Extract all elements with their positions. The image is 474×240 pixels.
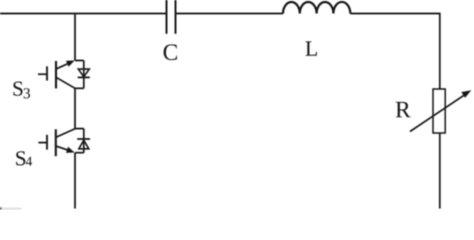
artifact: dark mark bottom-left corner: [0, 207, 2, 209]
wire: left branch bottom stub: [74, 153, 76, 209]
transistor S3 gate bar: [46, 66, 48, 80]
wire: between S3 and S4: [74, 88, 76, 128]
arrowhead: S4 emitter arrow: [66, 147, 75, 153]
wire: left branch from top bus junction down to S3: [74, 14, 76, 61]
diode D3 triangle (pointing down): [78, 69, 89, 77]
label C: [164, 44, 177, 60]
wire: right branch below resistor: [439, 133, 441, 209]
diode D4 cathode bar: [77, 138, 90, 140]
arrowhead: R variable arrow: [461, 90, 471, 97]
node: S3 top horizontal: [75, 60, 84, 62]
transistor S4 gate bar: [46, 135, 48, 150]
transistor S3 body bar: [55, 61, 57, 88]
node: S3 bottom horizontal: [75, 87, 84, 89]
label R: [396, 102, 411, 117]
wire: top bus right segment and right corner down to resistor: [350, 14, 440, 90]
arrowhead: S3 collector arrow: [66, 60, 75, 66]
transistor S4 emitter line with arrow: [56, 146, 67, 150]
label S4 subscript 4: [26, 157, 32, 166]
transistor S4 collector line: [57, 129, 76, 137]
node: S4 top horizontal: [75, 128, 84, 130]
resistor R variable arrow line: [410, 94, 466, 132]
label S4 letter S: [16, 151, 25, 165]
label S3 letter S: [13, 82, 22, 96]
resistor R body: [433, 89, 445, 133]
diode D3 cathode bar: [78, 76, 90, 78]
artifact: light grey smudge bottom-left: [2, 208, 22, 210]
node: S4 bottom horizontal: [75, 152, 84, 154]
label L: [306, 41, 317, 55]
transistor S3 gate lead: [38, 73, 47, 75]
diode D4 triangle (pointing up): [79, 140, 89, 149]
transistor S4 body bar: [55, 129, 57, 156]
diode D3 vertical lead: [83, 61, 85, 89]
inductor L humps: [283, 2, 350, 14]
transistor S3 emitter line: [57, 78, 75, 89]
transistor S4 gate lead: [38, 142, 47, 144]
transistor S3 collector line with arrow: [57, 63, 69, 68]
diode D4 vertical lead: [83, 129, 85, 153]
wire: top bus left segment: [0, 13, 167, 15]
wire: top bus between C and L: [176, 13, 284, 15]
label S3 subscript 3: [24, 88, 30, 98]
capacitor C plates: [167, 0, 176, 34]
